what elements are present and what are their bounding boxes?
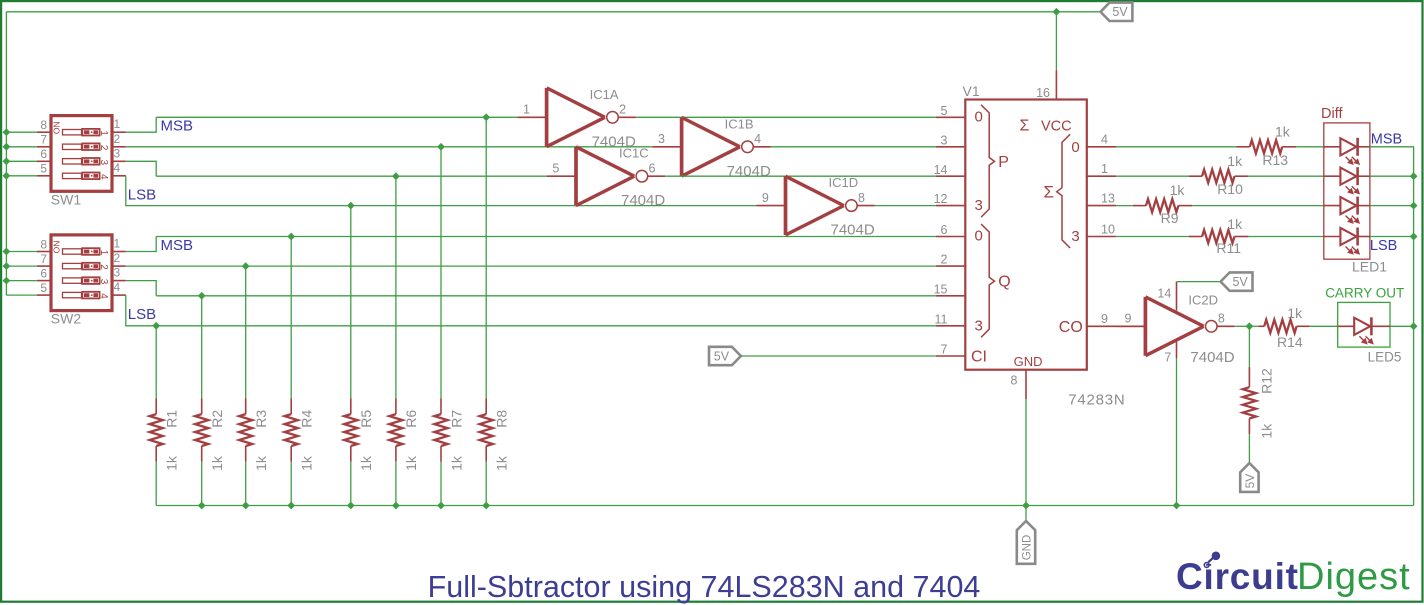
SW1 switch element 2 xyxy=(63,143,109,151)
resistor R9 xyxy=(1133,199,1193,212)
74283N right pin 4 stub xyxy=(1087,146,1117,148)
svg-text:2: 2 xyxy=(619,103,626,117)
74283N left pin 3 stub xyxy=(936,146,965,148)
svg-text:5: 5 xyxy=(941,104,948,118)
74283N pin4 wire to R13 xyxy=(1116,146,1236,148)
svg-text:8: 8 xyxy=(1011,374,1018,388)
svg-text:R13: R13 xyxy=(1262,152,1288,168)
resistor R7 xyxy=(434,398,447,462)
resistor R13 xyxy=(1237,140,1297,153)
junction R7 at ground bus xyxy=(437,502,445,510)
wire SW2.1 up to row5 xyxy=(126,237,156,252)
wire 74283N GND to bus xyxy=(1025,399,1027,506)
svg-text:6: 6 xyxy=(941,223,948,237)
svg-text:1: 1 xyxy=(1101,162,1108,176)
svg-text:3: 3 xyxy=(114,266,121,280)
LED emission arrows xyxy=(1346,216,1359,223)
junction row6 to R3 xyxy=(242,262,250,270)
74283N left pin 2 stub xyxy=(936,265,965,267)
SW1 right pin 2 stub xyxy=(112,146,126,148)
wire R9 to LED1 xyxy=(1192,205,1324,207)
SW2 right pin 1 stub xyxy=(112,251,126,253)
LED cathode bar xyxy=(1356,197,1359,215)
svg-text:3: 3 xyxy=(658,132,665,146)
wire 5V tag to CI pin xyxy=(741,355,937,357)
junction R3 at ground bus xyxy=(242,502,250,510)
svg-text:8: 8 xyxy=(1218,312,1225,326)
svg-text:11: 11 xyxy=(935,312,948,326)
wire 74283N CO to IC2D input xyxy=(1116,325,1145,327)
svg-text:R11: R11 xyxy=(1216,240,1241,256)
SW2 switch element 4 xyxy=(63,292,109,300)
svg-text:R9: R9 xyxy=(1161,210,1179,226)
LED emission arrows xyxy=(1346,247,1359,254)
svg-text:5: 5 xyxy=(40,281,47,295)
resistor R1 xyxy=(150,398,163,462)
svg-text:7: 7 xyxy=(941,343,948,357)
wire 5V rail to switch pin xyxy=(6,280,37,282)
inverter IC1D output pin stub xyxy=(857,205,875,207)
wire R7 to ground bus xyxy=(440,462,442,506)
junction on 5V rail xyxy=(3,172,11,180)
LED triangle xyxy=(1340,228,1356,245)
IC2D pin 14 VCC stub xyxy=(1176,282,1178,311)
wire 5V rail to switch pin xyxy=(6,131,37,133)
svg-text:4: 4 xyxy=(114,161,121,175)
SW2 left pin 5 stub xyxy=(37,294,51,296)
junction row1 to R8 xyxy=(482,113,490,121)
svg-text:2: 2 xyxy=(114,132,121,146)
LED cathode bar xyxy=(1356,138,1359,156)
svg-text:16: 16 xyxy=(1036,86,1050,100)
svg-text:5V: 5V xyxy=(1112,5,1128,19)
svg-text:1k: 1k xyxy=(1227,153,1243,169)
SW2 switch element 3 xyxy=(63,277,109,285)
junction R6 at ground bus xyxy=(392,502,400,510)
resistor R10 xyxy=(1189,170,1249,183)
svg-text:LSB: LSB xyxy=(128,306,156,323)
svg-text:IC2D: IC2D xyxy=(1188,293,1218,308)
LED pin wires xyxy=(1338,325,1355,327)
svg-text:8: 8 xyxy=(40,237,47,251)
wire IC1C output to 74283N pin 14 xyxy=(665,175,936,177)
LED bank LED1 box xyxy=(1324,123,1370,259)
74283N pin13 wire to R9 xyxy=(1116,205,1133,207)
svg-text:5V: 5V xyxy=(1232,275,1248,289)
SW1 left pin 6 stub xyxy=(37,160,51,162)
svg-text:GND: GND xyxy=(1014,354,1043,369)
svg-text:IC1C: IC1C xyxy=(619,146,649,161)
LED emission arrows xyxy=(1346,157,1359,164)
svg-text:7404D: 7404D xyxy=(621,192,665,209)
junction on 5V rail xyxy=(3,248,11,256)
svg-text:Circuit: Circuit xyxy=(1176,556,1299,597)
svg-text:3: 3 xyxy=(98,160,109,166)
svg-text:1: 1 xyxy=(114,237,121,251)
wire LED1 row3 to right bus xyxy=(1370,205,1414,207)
svg-text:IC1D: IC1D xyxy=(829,175,859,190)
LED pin wires xyxy=(1324,175,1341,177)
svg-text:4: 4 xyxy=(98,293,109,299)
junction on 5V rail xyxy=(3,262,11,270)
74283N left pin 6 stub xyxy=(936,236,965,238)
DIP switch SW2 body xyxy=(51,235,112,311)
74283N pin 16 VCC stub xyxy=(1055,70,1057,99)
wire R3 to ground bus xyxy=(245,462,247,506)
svg-text:1k: 1k xyxy=(448,455,464,471)
inverter IC1B input pin stub xyxy=(652,146,681,148)
svg-text:3: 3 xyxy=(975,197,983,214)
74283N right pin 1 stub xyxy=(1087,175,1117,177)
74283N left pin 5 stub xyxy=(936,116,965,118)
svg-text:V1: V1 xyxy=(963,83,980,99)
svg-text:LED5: LED5 xyxy=(1368,350,1402,365)
svg-text:VCC: VCC xyxy=(1041,119,1072,135)
wire 5V rail to SW2 pin 5 xyxy=(6,294,37,296)
svg-text:3: 3 xyxy=(1071,228,1079,245)
wire R14 to LED5 xyxy=(1310,325,1338,327)
wire row5 to 74283N pin 6 xyxy=(156,236,936,238)
wire R6 to ground bus xyxy=(395,462,397,506)
wire R4 to ground bus xyxy=(290,462,292,506)
svg-text:2: 2 xyxy=(98,264,109,270)
svg-text:R7: R7 xyxy=(448,410,464,428)
svg-text:14: 14 xyxy=(934,163,948,177)
junction right bus r3 xyxy=(1410,172,1418,180)
svg-text:74283N: 74283N xyxy=(1068,392,1125,409)
LED pin wires xyxy=(1324,146,1341,148)
wire R2 to ground bus xyxy=(201,462,203,506)
resistor R2 xyxy=(195,398,208,462)
svg-text:2: 2 xyxy=(941,253,948,267)
LED emission arrows xyxy=(1359,336,1372,343)
wire SW2.3 step down to row7 xyxy=(126,281,156,296)
svg-text:7404D: 7404D xyxy=(831,222,875,239)
wire LED1 row4 to right bus xyxy=(1370,236,1414,238)
wire R5 to ground bus xyxy=(350,462,352,506)
wire SW1.2 row2 to IC1B input xyxy=(126,146,653,148)
svg-text:6: 6 xyxy=(40,266,47,280)
junction R2 at ground bus xyxy=(198,502,206,510)
wire IC2D GND to bus xyxy=(1176,358,1178,506)
svg-text:1: 1 xyxy=(98,130,109,136)
resistor R8 xyxy=(480,398,493,462)
svg-text:SW1: SW1 xyxy=(51,191,82,207)
svg-text:1k: 1k xyxy=(253,455,269,471)
svg-text:MSB: MSB xyxy=(161,117,194,134)
LED LED5 box xyxy=(1338,302,1390,347)
LED triangle xyxy=(1340,138,1356,155)
wire SW2.2 row6 to 74283N pin 2 xyxy=(126,265,936,267)
wire column to R4 xyxy=(290,237,292,399)
svg-text:3: 3 xyxy=(98,279,109,285)
wire column to R7 xyxy=(440,147,442,398)
junction R8 at ground bus xyxy=(482,502,490,510)
svg-text:ON: ON xyxy=(52,121,62,134)
74283N left pin 15 stub xyxy=(936,295,965,297)
74283N left pin 14 stub xyxy=(936,175,965,177)
wire IC1D output to 74283N pin 12 xyxy=(875,205,936,207)
LED triangle xyxy=(1340,168,1356,185)
svg-text:14: 14 xyxy=(1157,287,1171,301)
SW2 switch element 1 xyxy=(63,248,109,256)
resistor R5 xyxy=(344,398,357,462)
svg-text:ON: ON xyxy=(52,241,62,254)
inverter IC1C output pin stub xyxy=(648,175,666,177)
svg-text:5: 5 xyxy=(40,162,47,176)
junction node CO-inverted xyxy=(1246,322,1254,330)
svg-text:LED1: LED1 xyxy=(1352,259,1387,275)
junction on 5V rail xyxy=(3,143,11,151)
svg-text:7: 7 xyxy=(40,252,47,266)
wire LED1 row2 to right bus xyxy=(1370,175,1414,177)
wire 5V rail to switch pin xyxy=(6,160,37,162)
svg-text:R2: R2 xyxy=(209,410,225,428)
svg-text:5V: 5V xyxy=(714,349,730,363)
svg-text:3: 3 xyxy=(941,133,948,147)
inverter IC1C output bubble xyxy=(636,170,648,182)
SW2 right pin 3 stub xyxy=(112,280,126,282)
junction row2 to R7 xyxy=(437,143,445,151)
svg-text:1k: 1k xyxy=(358,455,374,471)
SW1 right pin 3 stub xyxy=(112,160,126,162)
wire 5V rail to switch pin xyxy=(6,251,37,253)
svg-text:9: 9 xyxy=(1101,312,1108,326)
svg-text:1k: 1k xyxy=(1170,182,1186,198)
svg-text:4: 4 xyxy=(754,132,761,146)
wire R13 to LED1 xyxy=(1296,146,1324,148)
wire IC2D VCC to 5V tag xyxy=(1177,281,1221,283)
resistor R6 xyxy=(389,398,402,462)
svg-text:GND: GND xyxy=(1022,535,1034,561)
wire R12 to 5V tag xyxy=(1248,434,1250,463)
junction row5 to R4 xyxy=(287,233,295,241)
svg-text:8: 8 xyxy=(858,191,865,205)
svg-text:CO: CO xyxy=(1059,319,1083,336)
inverter IC1D triangle xyxy=(784,176,788,235)
wire R1 to ground bus xyxy=(155,462,157,506)
wire SW1.3 step down to row3 xyxy=(126,161,156,176)
inverter IC1B output bubble xyxy=(742,141,754,153)
74283N pin10 wire to R11 xyxy=(1116,236,1189,238)
svg-text:Q: Q xyxy=(998,274,1010,291)
wire IC2D output to node xyxy=(1235,325,1250,327)
wire 5V left rail vertical xyxy=(5,12,7,296)
svg-text:13: 13 xyxy=(1101,191,1115,205)
SW2 right pin 2 stub xyxy=(112,265,126,267)
svg-text:3: 3 xyxy=(114,146,121,160)
svg-text:R10: R10 xyxy=(1217,181,1243,197)
resistor R11 xyxy=(1189,230,1249,243)
junction on 5V rail xyxy=(3,277,11,285)
junction row4 to R5 xyxy=(347,202,355,210)
LED cathode bar xyxy=(1370,317,1373,335)
svg-text:9: 9 xyxy=(1124,312,1131,326)
wire R8 to ground bus xyxy=(485,462,487,506)
svg-text:1k: 1k xyxy=(1275,124,1291,140)
wire LED1 row1 to right bus xyxy=(1370,147,1414,176)
svg-text:Digest: Digest xyxy=(1297,556,1411,598)
SW1 right pin 1 stub xyxy=(112,131,126,133)
DIP switch SW1 body xyxy=(51,116,112,192)
svg-text:1: 1 xyxy=(523,103,530,117)
svg-text:7404D: 7404D xyxy=(1190,349,1234,366)
svg-text:1k: 1k xyxy=(1259,423,1275,439)
svg-text:Full-Sbtractor using 74LS283N: Full-Sbtractor using 74LS283N and 7404 xyxy=(428,570,981,604)
wire column to R5 xyxy=(350,206,352,399)
svg-text:7: 7 xyxy=(1164,351,1171,365)
inverter IC1D output bubble xyxy=(846,200,858,212)
wire row3 to IC1C input xyxy=(156,175,547,177)
wire column to R3 xyxy=(245,266,247,398)
wire LED5 to right bus xyxy=(1390,325,1414,327)
ground tag GND xyxy=(1017,521,1035,564)
junction GND at bus xyxy=(1022,502,1030,510)
svg-text:5: 5 xyxy=(552,161,559,175)
wire row1 SW1.1 to IC1A input xyxy=(156,116,517,118)
74283N right pin 13 stub xyxy=(1087,205,1117,207)
svg-text:Σ: Σ xyxy=(1044,183,1055,202)
junction IC2D GND at bus xyxy=(1173,502,1181,510)
svg-text:R5: R5 xyxy=(358,410,374,428)
inverter IC1A input pin stub xyxy=(517,116,546,118)
wire IC1A output to 74283N pin 5 xyxy=(636,116,936,118)
LED emission arrows xyxy=(1346,186,1359,193)
SW1 switch element 4 xyxy=(63,173,109,181)
LED triangle xyxy=(1354,318,1370,335)
svg-text:R8: R8 xyxy=(494,410,510,428)
wire ground bus xyxy=(156,505,1413,507)
inverter IC2D output bubble xyxy=(1206,321,1218,333)
74283N left pin 7 stub xyxy=(936,355,965,357)
wire node to R14 xyxy=(1249,325,1258,327)
supply tag 5V at CI xyxy=(709,347,741,365)
svg-text:Diff: Diff xyxy=(1321,106,1343,122)
wire node down to R12 xyxy=(1248,326,1250,367)
wire SW1.1 to row MSB xyxy=(126,117,156,132)
junction on 5V rail xyxy=(3,157,11,165)
SW1 left pin 7 stub xyxy=(37,146,51,148)
resistor R3 xyxy=(239,398,252,462)
SW2 switch element 2 xyxy=(63,263,109,270)
svg-text:MSB: MSB xyxy=(1371,131,1402,147)
svg-text:MSB: MSB xyxy=(161,237,194,254)
wire R11 to LED1 xyxy=(1248,236,1323,238)
74283N pin1 wire to R10 xyxy=(1116,175,1189,177)
wire R10 to LED1 xyxy=(1248,175,1323,177)
SW1 left pin 8 stub xyxy=(37,131,51,133)
74283N pin 8 GND stub xyxy=(1025,370,1027,399)
supply tag 5V top right xyxy=(1101,3,1133,21)
svg-text:3: 3 xyxy=(975,317,983,334)
svg-text:1k: 1k xyxy=(1287,305,1303,321)
wire SW2.4 LSB down to row8 xyxy=(126,295,936,326)
svg-text:R6: R6 xyxy=(403,410,419,428)
74283N right pin 9 stub xyxy=(1087,325,1117,327)
svg-text:4: 4 xyxy=(114,280,121,294)
svg-text:1k: 1k xyxy=(209,455,225,471)
junction R5 at ground bus xyxy=(347,502,355,510)
junction row8 to R1 xyxy=(152,322,160,330)
svg-text:4: 4 xyxy=(98,174,109,180)
svg-text:1k: 1k xyxy=(1227,216,1243,232)
wire column to R8 xyxy=(485,117,487,398)
74283N Sigma bracket (right) xyxy=(1057,134,1070,248)
svg-text:1k: 1k xyxy=(164,455,180,471)
inverter IC1A triangle xyxy=(545,88,549,147)
SW1 switch element 3 xyxy=(63,158,109,166)
inverter IC1A output pin stub xyxy=(618,116,636,118)
inverter IC1D input pin stub xyxy=(756,205,785,207)
74283N left pin 11 stub xyxy=(936,325,965,327)
svg-text:9: 9 xyxy=(762,191,769,205)
SW2 left pin 8 stub xyxy=(37,251,51,253)
wire 5V rail to switch pin xyxy=(6,175,37,177)
junction right bus r4 xyxy=(1410,202,1418,210)
resistor R4 xyxy=(285,398,298,462)
junction top rail to 74283N VCC xyxy=(1053,8,1061,16)
wire column to R1 xyxy=(155,326,157,398)
svg-text:P: P xyxy=(998,154,1009,171)
resistor R14 xyxy=(1258,320,1309,333)
inverter IC1B triangle xyxy=(680,117,684,176)
LED pin wires xyxy=(1324,205,1341,207)
74283N right pin 10 stub xyxy=(1087,236,1117,238)
svg-text:Σ: Σ xyxy=(1020,118,1030,135)
svg-text:12: 12 xyxy=(934,192,948,206)
wire 5V rail to switch pin xyxy=(6,146,37,148)
inverter IC1B output pin stub xyxy=(753,146,771,148)
SW2 right pin 4 stub xyxy=(112,294,126,296)
junction on 5V rail xyxy=(3,128,11,136)
LED cathode bar xyxy=(1356,228,1359,246)
svg-text:IC1A: IC1A xyxy=(590,87,619,102)
svg-text:R14: R14 xyxy=(1277,334,1303,350)
svg-text:7: 7 xyxy=(40,133,47,147)
svg-text:5V: 5V xyxy=(1243,474,1257,489)
SW2 left pin 6 stub xyxy=(37,280,51,282)
wire column to R6 xyxy=(395,176,397,398)
svg-text:LSB: LSB xyxy=(1370,238,1397,254)
svg-text:10: 10 xyxy=(1101,222,1115,236)
svg-text:2: 2 xyxy=(98,145,109,151)
svg-text:R1: R1 xyxy=(164,410,180,428)
svg-text:2: 2 xyxy=(114,251,121,265)
inverter IC2D triangle xyxy=(1144,297,1148,356)
svg-text:15: 15 xyxy=(934,282,948,296)
svg-text:6: 6 xyxy=(40,147,47,161)
svg-text:R12: R12 xyxy=(1259,368,1275,394)
inverter IC2D input pin stub xyxy=(1116,325,1145,327)
inverter IC1C input pin stub xyxy=(547,175,576,177)
junction row3 to R6 xyxy=(392,172,400,180)
74283N Q bracket xyxy=(981,224,994,337)
svg-text:1k: 1k xyxy=(403,455,419,471)
junction R4 at ground bus xyxy=(287,502,295,510)
SW1 right pin 4 stub xyxy=(112,175,126,177)
IC 74283N body xyxy=(965,100,1087,370)
wire row7 to 74283N pin 15 xyxy=(156,295,936,297)
LED triangle xyxy=(1340,197,1356,214)
svg-text:R3: R3 xyxy=(253,410,269,428)
svg-text:SW2: SW2 xyxy=(51,311,82,327)
resistor R12 xyxy=(1243,367,1256,434)
svg-text:0: 0 xyxy=(975,228,983,245)
74283N P bracket xyxy=(981,105,994,217)
inverter IC2D output pin stub xyxy=(1217,325,1235,327)
SW2 left pin 7 stub xyxy=(37,265,51,267)
svg-text:CARRY OUT: CARRY OUT xyxy=(1325,286,1404,301)
